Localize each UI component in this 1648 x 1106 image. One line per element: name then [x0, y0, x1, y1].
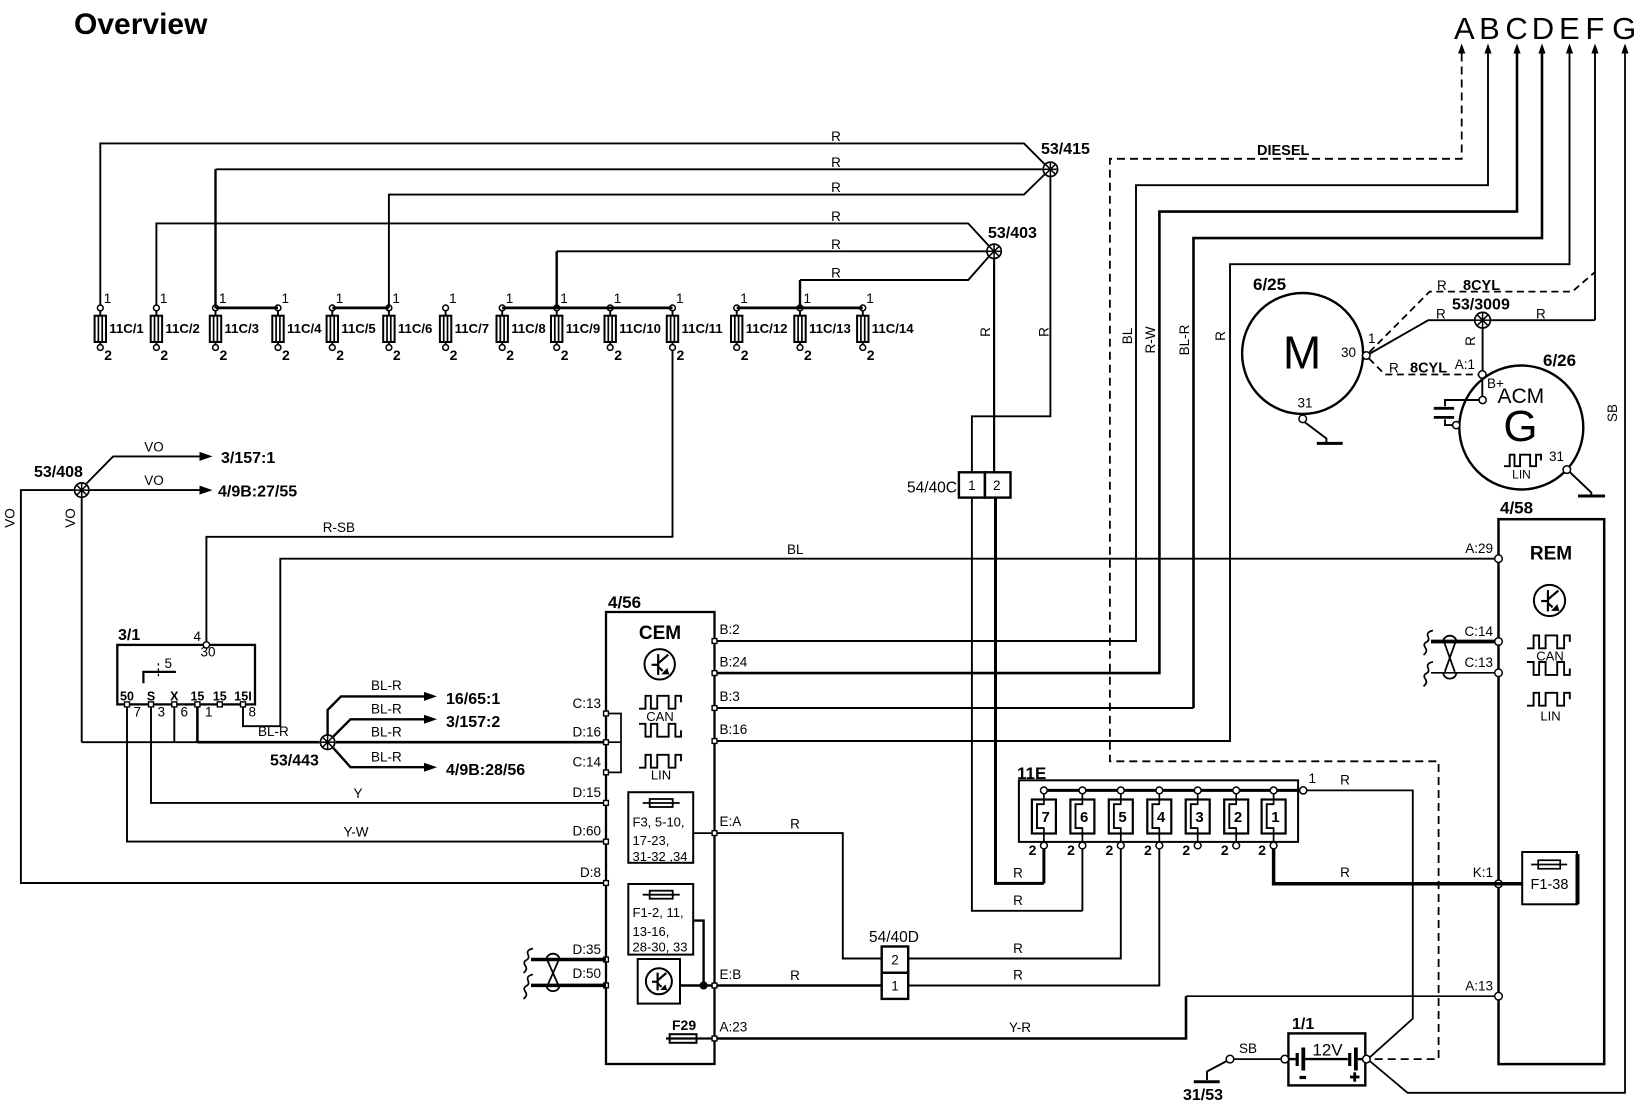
wire break symbol C:13 — [1424, 662, 1434, 687]
junction 53/408 — [75, 483, 89, 497]
svg-text:1: 1 — [804, 291, 812, 306]
wire R-W CEM B:24 to arrow C — [717, 54, 1517, 674]
pin 50 of 3/1 — [125, 702, 130, 707]
pin 1 of 11E — [1300, 787, 1307, 794]
ground symbol 31/53 — [1194, 1080, 1220, 1083]
arrowhead B — [1484, 44, 1491, 54]
svg-text:11C/13: 11C/13 — [809, 321, 851, 336]
svg-text:R: R — [1213, 331, 1228, 341]
svg-text:1: 1 — [104, 291, 112, 306]
svg-text:Y: Y — [353, 786, 362, 801]
pin K:1 of REM — [1495, 880, 1503, 888]
pin B:16 of CEM — [712, 739, 717, 744]
wire F vertical — [1594, 54, 1596, 321]
key icon CEM — [645, 649, 675, 679]
svg-text:6: 6 — [181, 705, 189, 720]
svg-text:VO: VO — [144, 440, 164, 455]
svg-text:2: 2 — [1144, 842, 1152, 858]
svg-text:1: 1 — [449, 291, 457, 306]
fuse 1 in 11E — [1258, 787, 1285, 858]
pin X of 3/1 — [172, 702, 177, 707]
svg-text:11C/4: 11C/4 — [287, 321, 322, 336]
svg-text:11C/14: 11C/14 — [872, 321, 914, 336]
svg-text:D:8: D:8 — [580, 865, 601, 880]
svg-text:R: R — [1463, 336, 1478, 346]
svg-text:R: R — [1340, 773, 1350, 788]
wire VO 53/408 to 4/9B:27/55 — [90, 489, 200, 491]
svg-text:G: G — [1612, 11, 1636, 46]
wire R 11E fuse4 to 54/40D:1 — [909, 849, 1160, 986]
fuse 2 in 11E — [1221, 787, 1248, 858]
svg-text:R: R — [1340, 865, 1350, 880]
svg-text:2: 2 — [804, 347, 812, 363]
ground wire 31/53 — [1207, 1061, 1227, 1080]
ignition coil 11C/1 — [95, 291, 144, 363]
svg-text:11C/6: 11C/6 — [398, 321, 432, 336]
LIN symbol CEM — [639, 755, 681, 768]
svg-text:1: 1 — [160, 291, 168, 306]
svg-text:R: R — [1437, 278, 1447, 293]
svg-text:53/3009: 53/3009 — [1452, 297, 1510, 314]
svg-text:SB: SB — [1239, 1041, 1257, 1056]
svg-text:A:1: A:1 — [1455, 357, 1475, 372]
svg-text:2: 2 — [282, 347, 290, 363]
svg-text:R: R — [1389, 361, 1399, 376]
fuse group F1-2 11 13-16 28-30 33 in CEM — [628, 884, 693, 955]
svg-text:53/443: 53/443 — [270, 753, 319, 770]
svg-text:R: R — [1536, 307, 1546, 322]
svg-text:6: 6 — [1080, 809, 1088, 826]
wire BL-R 53/443 to 16/65:1 — [328, 696, 424, 735]
svg-text:R-W: R-W — [1143, 326, 1158, 353]
svg-text:30: 30 — [1341, 345, 1356, 360]
wire BL-R CEM B:3 to arrow D — [717, 707, 1194, 709]
svg-text:1: 1 — [891, 979, 899, 994]
svg-text:C:14: C:14 — [1464, 624, 1493, 639]
fuse 5 in 11E — [1106, 787, 1133, 858]
wire R CEM E:B to 54/40D:1 — [717, 984, 882, 986]
svg-text:1: 1 — [205, 705, 213, 720]
ignition coil 11C/5 — [327, 291, 376, 363]
svg-text:E: E — [1559, 11, 1580, 46]
svg-text:1: 1 — [740, 291, 748, 306]
LIN symbol generator — [1504, 455, 1541, 467]
svg-text:R: R — [1013, 893, 1023, 908]
svg-text:E:B: E:B — [720, 967, 742, 982]
generator ACM 6/26 — [1459, 366, 1583, 490]
svg-text:C:13: C:13 — [572, 696, 601, 711]
wire SB battery to ground — [1234, 1058, 1281, 1060]
svg-text:B:24: B:24 — [720, 655, 748, 670]
svg-text:F: F — [1585, 11, 1604, 46]
svg-text:11C/11: 11C/11 — [682, 321, 723, 336]
wire R 11E fuse1 to REM K:1 — [1274, 849, 1495, 884]
battery 1/1 — [1288, 1033, 1365, 1085]
svg-text:11C/10: 11C/10 — [619, 321, 661, 336]
svg-text:2: 2 — [993, 478, 1001, 493]
node SB — [1226, 1055, 1234, 1063]
svg-text:31: 31 — [1297, 396, 1312, 411]
wire R 53/3009 to A:1 — [1482, 328, 1484, 371]
ground wire motor — [1305, 422, 1327, 442]
svg-text:R: R — [978, 327, 993, 337]
ground symbol motor — [1317, 442, 1343, 445]
svg-text:2: 2 — [450, 347, 458, 363]
svg-text:2: 2 — [393, 347, 401, 363]
svg-text:VO: VO — [3, 508, 18, 528]
svg-text:R: R — [790, 817, 800, 832]
svg-text:D:35: D:35 — [572, 942, 601, 957]
svg-text:A:29: A:29 — [1465, 541, 1493, 556]
svg-text:C:13: C:13 — [1464, 655, 1493, 670]
wire R 11C/9 bus to 53/403 — [556, 251, 558, 308]
twist symbol C:14/C:13 — [1443, 636, 1456, 642]
fuse 3 in 11E — [1182, 787, 1209, 858]
wire 53/403 to 54/40C pin 2 — [993, 259, 995, 472]
svg-text:B:3: B:3 — [720, 689, 740, 704]
arrowhead E — [1566, 44, 1573, 54]
svg-text:BL-R: BL-R — [371, 702, 402, 717]
svg-text:4/9B:27/55: 4/9B:27/55 — [218, 484, 297, 501]
wire BL-R 53/443 to 4/9B:28/56 — [333, 748, 424, 767]
svg-text:2: 2 — [220, 347, 228, 363]
motor 6/25 — [1242, 293, 1363, 414]
wire R 54/40C:1 to 11E fuse 6 — [972, 498, 1083, 911]
svg-text:11C/8: 11C/8 — [511, 321, 545, 336]
svg-text:VO: VO — [63, 508, 78, 528]
wire R 54/40C:2 to 11E fuse 7 — [996, 498, 1044, 884]
svg-text:Y-R: Y-R — [1009, 1020, 1031, 1035]
wire BL-R left segment — [82, 741, 198, 743]
svg-text:31: 31 — [1549, 449, 1564, 464]
fuse 6 in 11E — [1067, 787, 1094, 858]
svg-text:D:16: D:16 — [572, 725, 601, 740]
control module REM 4/58 — [1499, 519, 1605, 1064]
svg-text:4: 4 — [1157, 809, 1166, 826]
svg-text:1: 1 — [336, 291, 344, 306]
wire R 53/3009 to arrow F — [1490, 319, 1595, 321]
pin A:13 of REM — [1495, 992, 1503, 1000]
svg-text:BL-R: BL-R — [258, 724, 289, 739]
arrowhead F — [1591, 44, 1598, 54]
svg-text:12V: 12V — [1312, 1041, 1343, 1060]
svg-text:BL: BL — [787, 542, 804, 557]
key icon in square CEM — [638, 959, 680, 1004]
ignition coil 11C/3 — [210, 291, 259, 363]
svg-text:R: R — [831, 155, 841, 170]
svg-text:R: R — [831, 266, 841, 281]
svg-text:3/157:2: 3/157:2 — [446, 714, 500, 731]
wire break symbol C:14 — [1424, 631, 1434, 656]
svg-text:1: 1 — [866, 291, 874, 306]
svg-text:Y-W: Y-W — [343, 825, 368, 840]
svg-text:R: R — [1013, 968, 1023, 983]
svg-text:7: 7 — [1042, 809, 1050, 826]
pin E:B of CEM — [712, 983, 717, 988]
wire C:14 twisted pair REM — [1431, 640, 1495, 644]
svg-text:R: R — [831, 129, 841, 144]
svg-text:BL-R: BL-R — [371, 725, 402, 740]
svg-text:4: 4 — [194, 629, 202, 644]
svg-text:1/1: 1/1 — [1292, 1016, 1314, 1033]
pin minus of battery — [1281, 1055, 1289, 1063]
wire key square to pin E:B — [680, 984, 712, 986]
svg-text:11C/5: 11C/5 — [341, 321, 375, 336]
svg-text:R-SB: R-SB — [323, 520, 355, 535]
svg-text:13-16,: 13-16, — [633, 924, 670, 939]
fuse group F3 5-10 17-23 31-32 34 in CEM — [628, 792, 693, 863]
svg-text:F29: F29 — [672, 1017, 696, 1033]
pin B+ of generator — [1481, 379, 1483, 397]
svg-text:2: 2 — [891, 953, 899, 968]
svg-text:R: R — [831, 237, 841, 252]
svg-text:15I: 15I — [234, 690, 251, 704]
svg-text:DIESEL: DIESEL — [1257, 143, 1310, 159]
fuse 4 in 11E — [1144, 787, 1171, 858]
svg-text:11C/3: 11C/3 — [225, 321, 259, 336]
capacitor suppressor — [1445, 400, 1479, 406]
pin 4 of 3/1 — [203, 642, 209, 648]
svg-text:7: 7 — [134, 705, 142, 720]
twist symbol D:35/D:50 — [547, 954, 560, 960]
wire D:35 twisted pair — [531, 958, 606, 962]
svg-text:50: 50 — [120, 690, 134, 704]
pin B:2 of CEM — [712, 639, 717, 644]
ignition coil 11C/6 — [383, 291, 432, 363]
ignition coil 11C/10 — [605, 291, 661, 363]
svg-text:2: 2 — [336, 347, 344, 363]
svg-text:R: R — [1037, 327, 1052, 337]
svg-text:2: 2 — [614, 347, 622, 363]
svg-text:2: 2 — [741, 347, 749, 363]
svg-text:D:60: D:60 — [572, 824, 601, 839]
svg-text:F3, 5-10,: F3, 5-10, — [633, 815, 685, 830]
wire R 11C/2 to 53/403 — [156, 223, 988, 305]
svg-text:G: G — [1503, 402, 1537, 451]
pin D:60 of CEM — [604, 839, 609, 844]
svg-text:1: 1 — [560, 291, 568, 306]
ground wire generator — [1570, 472, 1592, 495]
ignition coil 11C/8 — [497, 291, 546, 363]
pin B:24 of CEM — [712, 671, 717, 676]
arrowhead D — [1538, 44, 1545, 54]
pin S of 3/1 — [149, 702, 154, 707]
arrowhead A — [1458, 44, 1465, 54]
wire VO 53/408 down branch — [81, 498, 83, 742]
wire R 11C/1 to 53/415 — [100, 143, 1044, 305]
wire DIESEL dashed battery to arrow A — [1110, 54, 1462, 1060]
wire break symbol D:35 — [524, 949, 534, 974]
svg-text:D:50: D:50 — [572, 966, 601, 981]
pin 31 of motor — [1299, 415, 1307, 423]
pin C:13 of REM — [1495, 669, 1503, 677]
svg-text:2: 2 — [506, 347, 514, 363]
svg-text:2: 2 — [1234, 809, 1242, 826]
junction 53/3009 — [1475, 312, 1491, 328]
svg-text:1: 1 — [1368, 331, 1376, 346]
pin C:14 of REM — [1495, 638, 1503, 646]
wire R 11C/3 bus to 53/415 — [214, 169, 216, 308]
svg-text:K:1: K:1 — [1473, 865, 1493, 880]
ignition coil 11C/9 — [551, 291, 600, 363]
wire fuse group to pin E:A — [693, 832, 712, 834]
svg-text:2: 2 — [1258, 842, 1266, 858]
svg-text:2: 2 — [561, 347, 569, 363]
svg-text:2: 2 — [160, 347, 168, 363]
svg-text:2: 2 — [1182, 842, 1190, 858]
svg-text:5: 5 — [165, 656, 173, 671]
wire bus 11C/8-11C/11 — [502, 306, 672, 309]
svg-text:3/157:1: 3/157:1 — [221, 450, 275, 467]
pin A:1 of generator — [1479, 371, 1487, 379]
wire bus 11C/5-11C/6 — [332, 306, 389, 309]
svg-text:R: R — [1013, 941, 1023, 956]
pin A:29 of REM — [1495, 555, 1503, 563]
wire R 8CYL dashed lower — [1369, 359, 1478, 375]
svg-text:REM: REM — [1530, 544, 1572, 565]
pin 31 of generator — [1563, 466, 1571, 474]
pin 30 of motor — [1363, 352, 1371, 360]
pin C:14 of CEM — [604, 770, 609, 775]
LIN symbol REM — [1527, 693, 1570, 706]
svg-text:8CYL: 8CYL — [1463, 278, 1500, 294]
wire R CEM E:A to 54/40D:2 — [717, 833, 882, 958]
svg-text:1: 1 — [219, 291, 227, 306]
svg-text:1: 1 — [506, 291, 514, 306]
pin 15 of 3/1 — [217, 702, 222, 707]
svg-text:11E: 11E — [1017, 764, 1046, 783]
pin D:15 of CEM — [604, 801, 609, 806]
svg-text:CAN: CAN — [646, 709, 673, 724]
svg-text:B+: B+ — [1487, 376, 1504, 391]
svg-text:30: 30 — [201, 645, 216, 660]
wire R-SB 11C/11:2 to 3/1:4 — [206, 351, 672, 642]
svg-text:BL-R: BL-R — [371, 678, 402, 693]
svg-text:53/408: 53/408 — [34, 464, 83, 481]
svg-text:11C/7: 11C/7 — [455, 321, 489, 336]
svg-text:A:13: A:13 — [1465, 979, 1493, 994]
svg-text:3: 3 — [158, 705, 166, 720]
wire Y 3/1:3 to CEM D:15 — [151, 707, 606, 803]
CEM internal bracket C:13 D:16 C:14 — [606, 714, 621, 773]
wire 53/415 to 54/40C pin 1 — [972, 177, 1051, 472]
svg-text:1: 1 — [968, 478, 976, 493]
fuse box 11E — [1019, 780, 1298, 842]
svg-text:BL-R: BL-R — [1177, 324, 1192, 355]
svg-text:2: 2 — [1029, 842, 1037, 858]
svg-text:3: 3 — [1195, 809, 1203, 826]
svg-text:2: 2 — [1221, 842, 1229, 858]
ignition switch 3/1 — [117, 645, 255, 705]
CAN symbol CEM — [639, 696, 681, 709]
svg-text:15: 15 — [190, 690, 204, 704]
svg-text:M: M — [1283, 327, 1321, 379]
svg-text:2: 2 — [104, 347, 112, 363]
wire BL-R 53/443 to CEM D:16 — [336, 741, 606, 744]
wire 3/1:6 stub to BL-R — [173, 707, 175, 742]
svg-text:SB: SB — [1605, 404, 1620, 422]
ignition coil 11C/2 — [151, 291, 200, 363]
wire R 11E pin1 to battery plus — [1307, 790, 1413, 1057]
wire 3/1:1 to BL-R junction — [196, 707, 199, 742]
svg-text:C: C — [1505, 11, 1527, 46]
fuse 7 in 11E — [1029, 787, 1056, 858]
svg-text:LIN: LIN — [1512, 468, 1531, 482]
svg-text:2: 2 — [867, 347, 875, 363]
svg-text:D:15: D:15 — [572, 785, 601, 800]
wire VO 53/408 left branch to CEM D:8 — [21, 490, 606, 883]
pin plus of battery — [1363, 1055, 1371, 1063]
wire BL CEM B:2 to arrow B — [717, 54, 1488, 642]
svg-text:X: X — [170, 690, 179, 704]
svg-text:B:16: B:16 — [720, 722, 748, 737]
wire Y-R CEM A:23 to REM A:13 — [717, 996, 1186, 1038]
svg-text:B:2: B:2 — [720, 622, 740, 637]
wire R 8CYL dashed upper — [1370, 272, 1596, 352]
battery plates — [1288, 1058, 1295, 1060]
wire R 11C/13 bus to 53/403 — [799, 280, 801, 308]
svg-text:R: R — [1013, 866, 1023, 881]
junction 53/415 — [1043, 162, 1057, 176]
pin D:50 of CEM — [604, 983, 609, 988]
svg-text:R: R — [790, 968, 800, 983]
svg-text:1: 1 — [614, 291, 622, 306]
svg-text:1: 1 — [392, 291, 400, 306]
ignition coil 11C/13 — [794, 291, 850, 363]
svg-text:2: 2 — [1106, 842, 1114, 858]
wire R 11E fuse5 to 54/40D:2 — [909, 849, 1121, 959]
svg-text:F1-38: F1-38 — [1531, 877, 1569, 893]
key icon REM — [1534, 585, 1565, 616]
arrowhead G — [1621, 44, 1628, 54]
wire Y-W 3/1:7 to CEM D:60 — [127, 707, 606, 842]
svg-text:R: R — [831, 180, 841, 195]
junction dot E:B — [700, 982, 707, 989]
svg-text:54/40C: 54/40C — [907, 480, 957, 497]
svg-text:2: 2 — [1067, 842, 1075, 858]
wire BL-R 53/443 to 3/157:2 — [333, 719, 424, 736]
svg-text:B: B — [1479, 11, 1500, 46]
svg-text:15: 15 — [213, 690, 227, 704]
svg-text:BL-R: BL-R — [371, 750, 402, 765]
svg-text:16/65:1: 16/65:1 — [446, 691, 500, 708]
wire R CEM B:16 to arrow E — [717, 54, 1570, 742]
wire R 11C/6 bus to 53/415 — [389, 175, 1045, 308]
pin B:3 of CEM — [712, 706, 717, 711]
wire BL 3/1:8 to REM A:29 — [243, 559, 1495, 727]
svg-text:11C/1: 11C/1 — [109, 321, 143, 336]
wire break symbol D:50 — [524, 974, 534, 999]
svg-text:31/53: 31/53 — [1183, 1087, 1223, 1104]
wire BL-R 3/1 to 53/443 — [197, 741, 319, 744]
svg-text:8: 8 — [249, 705, 257, 720]
svg-text:1: 1 — [1271, 809, 1279, 826]
svg-text:R: R — [831, 209, 841, 224]
pin C:13 of CEM — [604, 711, 609, 716]
CAN symbol REM — [1527, 635, 1570, 648]
wire R motor 30 to 53/3009 — [1370, 320, 1475, 353]
ignition coil 11C/7 — [440, 291, 489, 363]
svg-text:8CYL: 8CYL — [1410, 361, 1447, 377]
wire bus 11C/12-11C/14 — [737, 306, 863, 309]
wire SB battery plus to arrow G — [1370, 54, 1625, 1093]
svg-text:11C/2: 11C/2 — [165, 321, 199, 336]
pin D:8 of CEM — [604, 881, 609, 886]
svg-text:54/40D: 54/40D — [869, 929, 919, 946]
svg-text:2: 2 — [677, 347, 685, 363]
junction 53/443 — [320, 735, 334, 749]
bus bar 11E — [1040, 789, 1303, 792]
